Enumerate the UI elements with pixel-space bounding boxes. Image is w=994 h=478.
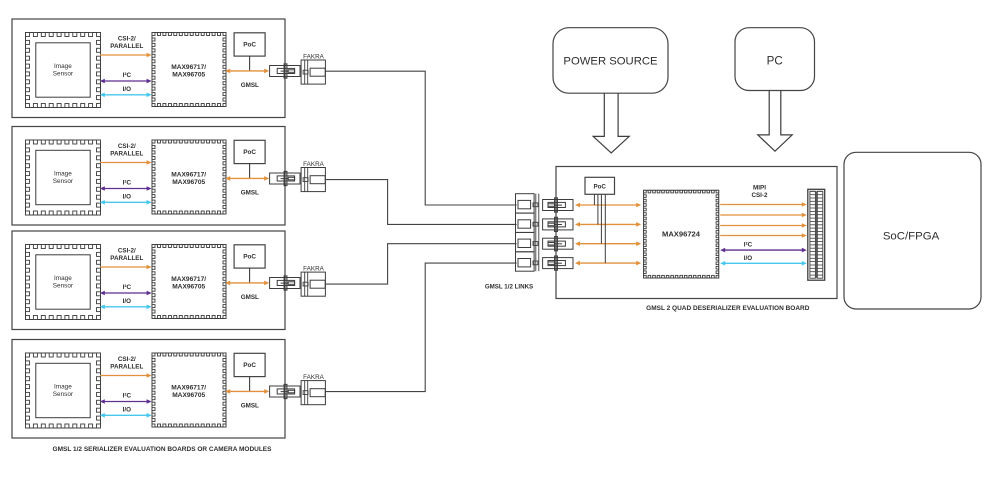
svg-text:SoC/FPGA: SoC/FPGA <box>883 231 940 243</box>
svg-text:PARALLEL: PARALLEL <box>110 151 143 158</box>
svg-text:MAX96724: MAX96724 <box>662 229 701 238</box>
svg-text:Image: Image <box>54 275 72 282</box>
svg-text:MAX96705: MAX96705 <box>172 179 205 186</box>
svg-text:Sensor: Sensor <box>53 391 74 398</box>
svg-text:PoC: PoC <box>243 254 256 261</box>
svg-text:MAX96717/: MAX96717/ <box>171 385 206 392</box>
svg-text:FAKRA: FAKRA <box>303 374 324 381</box>
svg-text:GMSL: GMSL <box>241 190 259 197</box>
svg-text:GMSL: GMSL <box>241 403 259 410</box>
svg-text:PARALLEL: PARALLEL <box>110 43 143 50</box>
svg-text:MAX96717/: MAX96717/ <box>171 172 206 179</box>
svg-text:CSI-2: CSI-2 <box>751 192 768 199</box>
svg-text:FAKRA: FAKRA <box>303 161 324 168</box>
svg-text:MAX96705: MAX96705 <box>172 392 205 399</box>
svg-text:CSI-2/: CSI-2/ <box>118 36 136 43</box>
svg-text:FAKRA: FAKRA <box>303 53 324 60</box>
svg-text:MAX96705: MAX96705 <box>172 72 205 79</box>
svg-text:PoC: PoC <box>243 42 256 49</box>
svg-text:Image: Image <box>54 383 72 390</box>
svg-text:I/O: I/O <box>123 407 131 414</box>
svg-text:Sensor: Sensor <box>53 282 74 289</box>
svg-text:I/O: I/O <box>744 255 752 262</box>
svg-text:MAX96717/: MAX96717/ <box>171 64 206 71</box>
svg-text:CSI-2/: CSI-2/ <box>118 356 136 363</box>
svg-text:PoC: PoC <box>243 149 256 156</box>
svg-text:MAX96705: MAX96705 <box>172 284 205 291</box>
svg-text:I/O: I/O <box>123 86 131 93</box>
svg-text:I²C: I²C <box>123 393 132 400</box>
svg-text:I/O: I/O <box>123 298 131 305</box>
svg-text:GMSL: GMSL <box>241 294 259 301</box>
svg-text:Image: Image <box>54 170 72 177</box>
svg-text:PoC: PoC <box>594 184 607 191</box>
svg-text:PC: PC <box>767 54 783 67</box>
svg-text:GMSL: GMSL <box>241 82 259 89</box>
svg-text:MIPI: MIPI <box>753 185 766 192</box>
svg-text:POWER SOURCE: POWER SOURCE <box>563 55 658 67</box>
svg-text:CSI-2/: CSI-2/ <box>118 143 136 150</box>
svg-text:I/O: I/O <box>123 194 131 201</box>
svg-text:I²C: I²C <box>123 180 132 187</box>
svg-text:GMSL 1/2 SERIALIZER EVALUATION: GMSL 1/2 SERIALIZER EVALUATION BOARDS OR… <box>53 446 273 453</box>
svg-text:Sensor: Sensor <box>53 70 74 77</box>
svg-text:MAX96717/: MAX96717/ <box>171 276 206 283</box>
svg-text:GMSL 1/2 LINKS: GMSL 1/2 LINKS <box>485 283 533 290</box>
svg-text:PARALLEL: PARALLEL <box>110 255 143 262</box>
svg-text:Image: Image <box>54 63 72 70</box>
svg-text:PARALLEL: PARALLEL <box>110 364 143 371</box>
svg-text:FAKRA: FAKRA <box>303 265 324 272</box>
svg-text:CSI-2/: CSI-2/ <box>118 248 136 255</box>
svg-text:Sensor: Sensor <box>53 178 74 185</box>
svg-text:GMSL 2 QUAD DESERIALIZER EVALU: GMSL 2 QUAD DESERIALIZER EVALUATION BOAR… <box>646 305 810 312</box>
svg-text:I²C: I²C <box>123 284 132 291</box>
svg-text:I²C: I²C <box>123 72 132 79</box>
svg-text:PoC: PoC <box>243 362 256 369</box>
svg-text:I²C: I²C <box>744 242 753 249</box>
